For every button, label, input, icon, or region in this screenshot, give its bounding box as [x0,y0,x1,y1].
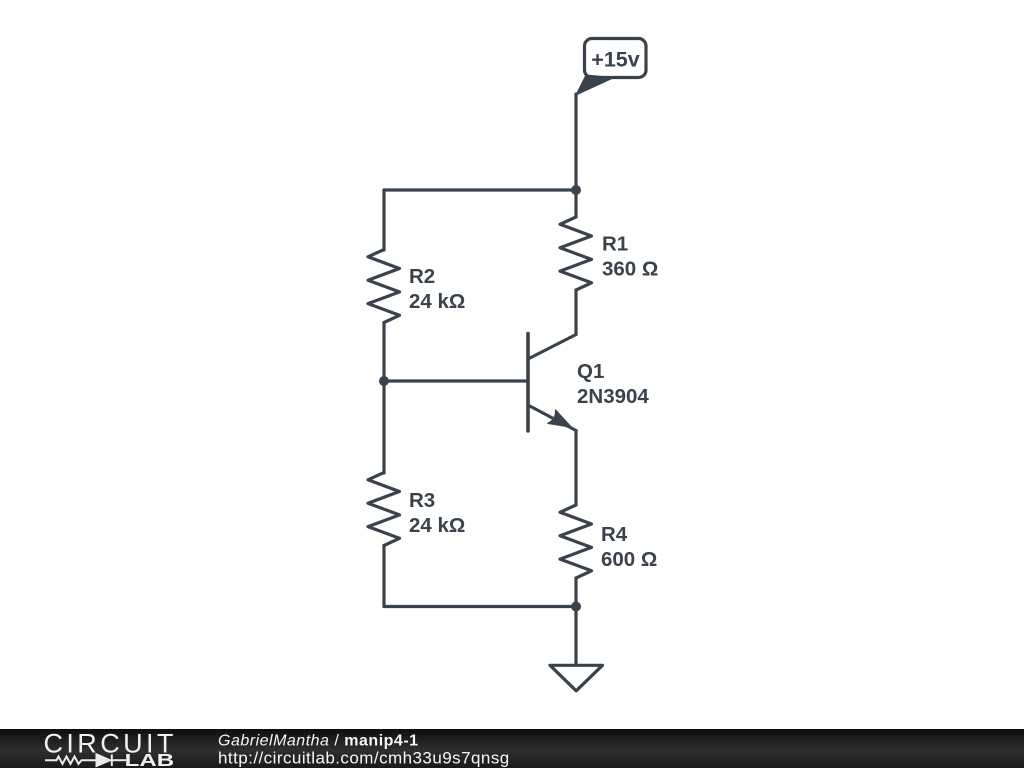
wire R2 bottom lead [382,323,385,382]
junction node base [379,376,389,386]
svg-text:http://circuitlab.com/cmh33u9s: http://circuitlab.com/cmh33u9s7qnsg [218,749,510,768]
footer bar [0,729,1024,768]
CircuitLab logo resistor-diode doodle [45,754,126,766]
ground [550,665,603,691]
resistor R1 [560,217,592,290]
junction node bottom [571,602,581,612]
wire R2 top lead [382,190,385,250]
resistor R3 [368,473,400,546]
wire R3 top lead [382,381,385,473]
resistor R4 [560,505,592,578]
wire to ground [574,607,577,666]
wire bottom horizontal [384,605,576,608]
wire base horizontal [384,379,527,382]
wire R1 bottom lead to collector [574,290,577,335]
transistor Q1 [528,334,576,432]
svg-text:LAB: LAB [125,750,175,768]
wire top horizontal [384,188,576,191]
wire R4 bottom lead [574,578,577,607]
wire emitter to R4 [574,431,577,506]
CircuitLab logo wordmark [44,729,177,768]
net V+ flag +15v [576,39,646,96]
svg-text:GabrielMantha / manip4-1: GabrielMantha / manip4-1 [218,733,419,750]
wire V+ down to top node [574,94,577,190]
resistor R2 [368,250,400,323]
wire R1 top lead [574,190,577,217]
wire R3 bottom lead [382,546,385,607]
junction node top [571,185,581,195]
